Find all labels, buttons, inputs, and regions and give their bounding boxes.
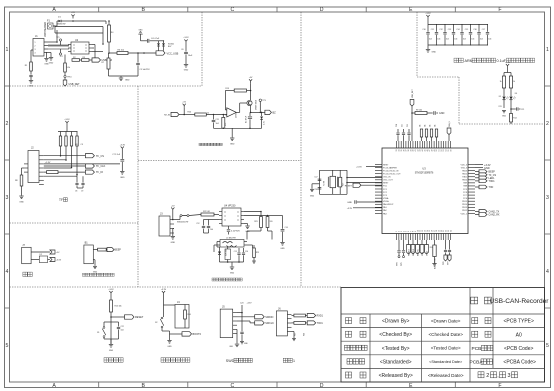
svg-text:104: 104: [446, 39, 449, 41]
net label GND right of MCU: [475, 167, 483, 169]
svg-text:CAN2_RX: CAN2_RX: [489, 214, 500, 217]
ground symbol far right CAN: [280, 243, 284, 246]
text caption reset circuit (Chinese): [104, 358, 123, 362]
svg-text:BEEP: BEEP: [115, 249, 122, 252]
bypass capacitor C13: [208, 220, 210, 226]
net flag amplifier output: [265, 110, 272, 114]
capacitor under R1: [30, 71, 32, 75]
svg-text:+3.3V: +3.3V: [356, 167, 362, 169]
U4 pin stubs: [219, 212, 244, 224]
svg-text:+3.3V: +3.3V: [45, 162, 51, 164]
svg-text:F: F: [498, 7, 501, 13]
test point flags below caps: [398, 253, 400, 256]
connector J3 external CAN: [159, 216, 170, 236]
net flag TF_CLK: [85, 164, 94, 168]
resistor R22: [201, 213, 214, 216]
svg-text:4: 4: [6, 269, 9, 275]
ground symbol TF detect: [21, 186, 23, 196]
MCU top pin stubs: [397, 141, 451, 148]
svg-text:VSS_3: VSS_3: [461, 167, 468, 169]
TF pullup bus wire: [66, 125, 68, 132]
net flag VCC_USB: [156, 51, 165, 55]
load capacitor C17 on left branch: [318, 179, 322, 180]
electrolytic capacitor E1: [148, 39, 149, 43]
CAN termination resistor R24: [244, 215, 268, 217]
wire top rail to right column: [73, 20, 106, 22]
test point TP1 on D-: [59, 39, 61, 41]
LED resistor R11: [503, 73, 505, 77]
svg-text:R13: R13: [499, 106, 502, 108]
svg-text:RESET: RESET: [135, 316, 144, 319]
svg-text:F: F: [498, 383, 501, 389]
svg-text:USB-CAN-Recorder: USB-CAN-Recorder: [490, 298, 550, 305]
svg-text:R21: R21: [225, 123, 227, 126]
svg-text:E2 47uF: E2 47uF: [246, 115, 248, 123]
TF pullup drop wires: [60, 146, 62, 156]
svg-text:GND: GND: [280, 248, 285, 250]
svg-text:C16: C16: [245, 251, 248, 253]
net flag CAN2_TX: [475, 210, 479, 212]
test point TP10: [64, 72, 66, 75]
pull resistor R5 1.5k: [64, 55, 66, 64]
wire middle rail: [55, 26, 103, 28]
svg-text:VDD_1: VDD_1: [461, 213, 468, 215]
svg-text:TXD1: TXD1: [489, 180, 496, 183]
net arrow +5V battery: [50, 250, 55, 254]
svg-text:2: 2: [486, 373, 489, 379]
op-amp input stubs: [225, 109, 226, 111]
svg-text:D: D: [320, 383, 324, 389]
power +3.3V cap bank: [426, 15, 429, 19]
text caption boot circuit (Chinese): [161, 358, 190, 362]
svg-text:1k: 1k: [513, 81, 515, 83]
net flag SWDIO: [255, 315, 265, 319]
bypass capacitor C32: [444, 25, 446, 32]
LED D6: [510, 88, 512, 96]
bypass capacitor C37: [487, 25, 489, 32]
dashed partition: bottom of CAN region / above bottom strip: [10, 286, 342, 288]
svg-text:D: D: [320, 7, 324, 13]
resistor R15 reset pullup: [110, 295, 112, 300]
svg-text:RXD1: RXD1: [317, 315, 324, 318]
svg-text:VSSA: VSSA: [383, 197, 389, 200]
series resistor on TF DI row: [47, 171, 58, 174]
svg-text:3: 3: [508, 373, 511, 379]
resistor R25 lower: [253, 245, 255, 248]
svg-text:Y1 8M: Y1 8M: [324, 180, 326, 186]
svg-text:D2: D2: [40, 254, 42, 256]
svg-text:C31: C31: [431, 29, 434, 31]
reset capacitor C22: [111, 321, 119, 323]
net flag TF_CS: [85, 154, 94, 158]
feedback resistor R19: [234, 89, 246, 92]
net flag TF_DI: [85, 170, 94, 174]
op-amp U5: [227, 108, 237, 117]
svg-text:TP9: TP9: [262, 100, 265, 102]
buzzer resistor R26: [98, 248, 107, 251]
svg-text:VDDA: VDDA: [383, 200, 389, 203]
TF wires to net flags: [44, 155, 86, 157]
emitter wire to output row: [250, 106, 252, 113]
ground symbol mid (shield): [46, 52, 48, 58]
title block horizontal dividers: [341, 314, 545, 368]
capacitor C15: [238, 248, 240, 252]
svg-text:TXD1: TXD1: [317, 322, 324, 325]
svg-text:SWDIO: SWDIO: [408, 249, 410, 256]
wire jumper to R22: [189, 215, 201, 216]
power +5V above transistor: [249, 79, 252, 83]
svg-text:104: 104: [463, 39, 466, 41]
svg-text:C15: C15: [234, 251, 237, 253]
LED D5: [503, 88, 505, 96]
ground symbol TF cap branch: [120, 172, 124, 175]
svg-text:+3.3V: +3.3V: [161, 289, 167, 291]
svg-text:C22: C22: [407, 124, 409, 127]
net flag CAN2_RX: [475, 214, 479, 216]
TF supply capacitor C7: [121, 151, 123, 159]
svg-text:5: 5: [546, 343, 549, 349]
dashed partition: bottom of TF-card region: [10, 222, 139, 224]
dashed partition: bottom of USB region: [10, 85, 203, 87]
ground symbol SWD connector: [236, 329, 238, 343]
serial resistor R18: [292, 322, 294, 324]
wires crystal to MCU OSC pins: [347, 177, 382, 179]
resistor cluster above MCU: [420, 129, 422, 137]
bottom rail of amplifier: [214, 127, 262, 129]
svg-text:BOOT1: BOOT1: [417, 248, 419, 256]
svg-text:GND: GND: [171, 242, 176, 244]
svg-text:A: A: [52, 383, 56, 389]
text caption external CAN interface (Chinese): [212, 278, 242, 281]
svg-text:R25: R25: [256, 252, 259, 254]
svg-text:2: 2: [546, 121, 549, 127]
buzzer B1: [84, 245, 93, 264]
svg-text:OSC_IN: OSC_IN: [383, 177, 391, 179]
diode D1 1N5819W: [59, 20, 62, 23]
TVS diode D4: [218, 252, 221, 255]
feedback wire from inverting input: [224, 91, 226, 110]
svg-text:120: 120: [270, 221, 273, 223]
power +3.3V above TF pullups: [65, 121, 68, 125]
svg-text:GND: GND: [502, 116, 507, 118]
ground symbol serial: [292, 331, 295, 333]
boot resistor R16: [184, 310, 187, 319]
TF card connector J2: [28, 151, 39, 183]
TF connector left pin stubs: [24, 164, 28, 172]
dashed partition: left edge of MCU region: [300, 12, 302, 287]
svg-text:SI2301: SI2301: [168, 44, 174, 46]
svg-text:104: 104: [437, 39, 440, 41]
svg-text:SWCLK: SWCLK: [413, 248, 415, 256]
svg-text:D6: D6: [515, 93, 517, 95]
ESD protection IC U2: [71, 42, 89, 54]
capacitor pair below MCU left: [398, 240, 400, 250]
ground symbol power sense: [120, 76, 122, 78]
net label +3.3V right of MCU: [475, 164, 483, 166]
svg-text:2: 2: [35, 46, 36, 48]
svg-text:4: 4: [35, 53, 36, 55]
wire J3 to jumper: [174, 219, 180, 221]
svg-text:OSC_OUT: OSC_OUT: [383, 180, 393, 182]
svg-text:<PCB TYPE>: <PCB TYPE>: [503, 319, 534, 325]
dashed partition: right edge of TF-card region: [137, 86, 139, 287]
title page number: page 2 of 3 (Chinese): [478, 372, 484, 378]
load capacitor C18 on left branch: [318, 188, 322, 189]
ground symbol choke area: [220, 261, 244, 263]
svg-text:R22 0R: R22 0R: [203, 211, 210, 213]
svg-text:1: 1: [6, 47, 9, 53]
wire J1 shell to resistor R1: [31, 49, 33, 51]
svg-text:3: 3: [6, 195, 9, 201]
wire R22 to CAN IC: [214, 214, 219, 216]
ground symbol boot: [169, 334, 171, 340]
svg-text:STM32F105RBT6: STM32F105RBT6: [415, 173, 434, 175]
ground symbol crystal: [310, 189, 314, 191]
svg-text:<Released By>: <Released By>: [379, 373, 413, 379]
net flag BEEP: [105, 249, 108, 251]
text caption serial port 1 (Chinese mixed): [283, 358, 292, 362]
svg-text:104: 104: [429, 39, 432, 41]
svg-text:GND: GND: [347, 202, 352, 204]
MCU top pin numbers: [396, 150, 452, 152]
title row label (Chinese) Released: [346, 372, 352, 378]
svg-text:C35: C35: [465, 29, 468, 31]
wire U2 top pins to loop: [92, 51, 103, 53]
svg-text:TF_CS: TF_CS: [96, 155, 104, 158]
series diode D2 battery: [39, 256, 47, 263]
power +5V symbol: [71, 15, 74, 19]
svg-text:+3.3V: +3.3V: [505, 62, 511, 64]
crystal Y1: [330, 176, 336, 187]
power +3.3V at TF cap branch: [121, 147, 124, 151]
svg-text:R15 10k: R15 10k: [115, 306, 122, 308]
svg-text:E: E: [409, 383, 413, 389]
svg-text:GND: GND: [167, 346, 172, 348]
wire diode to VCC: [62, 20, 74, 22]
bypass capacitor C33: [453, 25, 455, 32]
net flag group below MCU: [408, 240, 410, 245]
svg-text:<Tested By>: <Tested By>: [382, 346, 410, 352]
wire resistors row: [80, 59, 82, 61]
svg-text:C30: C30: [422, 29, 425, 31]
ground symbol LED left: [503, 100, 505, 108]
ground symbol right branch: [184, 65, 188, 68]
svg-text:TP1: TP1: [56, 37, 59, 39]
svg-text:1.5k: 1.5k: [67, 67, 71, 69]
svg-text:GND: GND: [432, 52, 437, 54]
svg-text:NRST: NRST: [383, 164, 389, 166]
svg-text:10k: 10k: [420, 124, 422, 127]
ground symbol SWD cap: [240, 342, 244, 344]
svg-text:GND: GND: [29, 86, 34, 88]
svg-text:S1: S1: [97, 332, 99, 334]
svg-text:PC14-OSC32_IN: PC14-OSC32_IN: [383, 170, 399, 172]
svg-text:R14: R14: [513, 118, 516, 120]
svg-text:C34: C34: [456, 29, 459, 31]
capacitor C19 above MCU: [427, 112, 433, 114]
pull-down resistor R21: [222, 117, 225, 128]
svg-text:R16: R16: [188, 314, 191, 316]
svg-text:C12: C12: [196, 223, 199, 225]
crystal circuit rails: [320, 169, 348, 171]
svg-text:C6: C6: [181, 49, 183, 51]
title col4 label: version (Chinese): [472, 331, 478, 337]
LED bus split: [507, 68, 509, 73]
svg-text:TF_CLK: TF_CLK: [96, 165, 106, 168]
bypass capacitor C36: [478, 25, 480, 32]
svg-text:LM358: LM358: [236, 112, 238, 118]
ground symbol amplifier: [231, 128, 233, 137]
wire gnd branch down: [140, 34, 142, 41]
svg-text:A: A: [52, 7, 56, 13]
text caption buzzer interface (Chinese): [83, 273, 115, 276]
svg-text:R9 10k: R9 10k: [416, 110, 422, 112]
test point TP9: [259, 99, 261, 101]
serial connector J6: [276, 311, 287, 336]
svg-text:10k: 10k: [425, 124, 427, 127]
pull-down resistor R7: [108, 53, 110, 58]
USB connector pin stubs: [44, 42, 48, 53]
note text: one 0.1uF cap near each ARM pin (Chinese mixed): [454, 58, 463, 62]
reset switch S1: [104, 321, 111, 323]
svg-text:GND: GND: [230, 144, 235, 146]
wire second rail: [53, 25, 55, 27]
capacitor C11 at node: [213, 115, 215, 120]
svg-text:PCB: PCB: [472, 346, 482, 352]
svg-text:104: 104: [121, 329, 124, 331]
svg-text:RESET: RESET: [345, 185, 353, 187]
dashed partition: left edge of capacitor-bank region upper: [416, 12, 418, 77]
resistor R1 below connector: [30, 62, 33, 71]
CAN termination resistor R23: [244, 211, 261, 213]
svg-text:4: 4: [546, 269, 549, 275]
svg-text:S2: S2: [155, 322, 157, 324]
svg-text:GND: GND: [484, 167, 490, 170]
wire op-amp output to Q2 base: [236, 111, 239, 113]
U2 pin stubs: [68, 45, 92, 52]
net flag BOOT0: [182, 332, 192, 336]
transistor Q2: [247, 100, 252, 105]
svg-text:<Checked By>: <Checked By>: [379, 332, 412, 338]
svg-text:<PCBA Code>: <PCBA Code>: [503, 359, 536, 365]
ground symbol buzzer: [93, 266, 97, 268]
svg-text:1: 1: [35, 42, 36, 44]
buzzer wire to resistor: [93, 249, 97, 251]
svg-text:<PCB Code>: <PCB Code>: [504, 346, 534, 352]
cap bank top bus: [427, 19, 429, 25]
svg-text:+3.3V: +3.3V: [347, 208, 353, 210]
cap bank bottom bus: [428, 44, 488, 46]
svg-text:JTDI: JTDI: [422, 251, 424, 256]
svg-text:PC13-TAMPER: PC13-TAMPER: [383, 166, 397, 169]
J3 pin stubs: [170, 220, 174, 234]
microcontroller U3 body: [382, 148, 468, 234]
wires choke sides: [246, 231, 248, 240]
svg-text:+3.3V: +3.3V: [120, 145, 126, 147]
net arrow +3.6V battery: [50, 258, 55, 262]
svg-text:+3.3V: +3.3V: [247, 303, 253, 305]
SWD capacitor C23: [241, 313, 243, 332]
protection diode D8: [163, 40, 164, 41]
svg-text:24: 24: [450, 230, 452, 232]
svg-text:C7 2.2uF: C7 2.2uF: [112, 154, 121, 156]
power +5V at CAN connector: [171, 208, 174, 212]
bypass capacitor C12: [203, 220, 205, 226]
svg-text:USB HEADER: USB HEADER: [44, 22, 47, 37]
wire boot vcc: [163, 295, 165, 305]
title row label (Chinese) Standarded: [347, 359, 365, 364]
capacitor C16: [243, 248, 245, 252]
svg-text:1: 1: [293, 359, 295, 363]
buzzer lower wire: [93, 259, 95, 261]
svg-text:<Drawn By>: <Drawn By>: [382, 319, 410, 325]
svg-text:C14: C14: [285, 227, 288, 229]
TF detect resistor R8: [22, 167, 25, 169]
transient suppressor U6: [225, 249, 231, 260]
svg-text:C5 1uF/25V: C5 1uF/25V: [140, 69, 151, 71]
svg-text:104: 104: [216, 123, 219, 125]
ground symbol at jumper branch: [172, 229, 174, 237]
battery connector J7: [22, 247, 31, 263]
wire boot to flag: [161, 328, 163, 331]
MCU right pin labels: [461, 164, 468, 215]
svg-text:GND: GND: [125, 80, 130, 82]
title text: name label: [471, 297, 478, 304]
resistor R14 lower: [510, 109, 512, 114]
solder jumper SJ1: [180, 215, 182, 217]
protection diode D7: [158, 41, 160, 43]
title col4 label: model (Chinese): [472, 318, 478, 324]
wires SWD to flags: [237, 316, 255, 318]
svg-text:BZ: BZ: [273, 112, 277, 115]
text caption driver output (Chinese): [199, 143, 222, 146]
svg-text:GND: GND: [120, 177, 125, 179]
power +3.3V symbol right branch: [184, 40, 187, 44]
net flag SWCLK: [255, 321, 265, 325]
svg-text:C9: C9: [81, 191, 83, 193]
ground stub of crystal block: [312, 183, 320, 185]
TF pullup resistor RP3: [71, 132, 73, 137]
svg-text:GND: GND: [49, 63, 54, 65]
power +3.3V boot block: [162, 291, 165, 295]
svg-text:GND: GND: [310, 196, 315, 198]
svg-text:BOOT0 10k: BOOT0 10k: [434, 258, 436, 269]
MCU left pin labels: [383, 164, 401, 215]
far capacitor C14 to ground: [268, 215, 283, 217]
svg-text:L1 B82789: L1 B82789: [226, 238, 237, 240]
svg-text:RX_IN: RX_IN: [164, 115, 170, 117]
svg-text:104: 104: [454, 39, 457, 41]
svg-text:+3.6V: +3.6V: [56, 260, 62, 262]
svg-text:C32: C32: [439, 29, 442, 31]
flags below right caps: [444, 255, 447, 261]
svg-text:R18: R18: [304, 333, 306, 336]
svg-text:MMBT3904: MMBT3904: [256, 100, 258, 110]
serial resistor R17: [292, 315, 294, 317]
bypass capacitor C35: [470, 25, 472, 32]
svg-text:C21: C21: [521, 109, 524, 111]
series resistor R2: [72, 59, 80, 62]
svg-text:0.1uF/50V: 0.1uF/50V: [231, 231, 240, 233]
svg-text:NRST: NRST: [383, 183, 389, 185]
capacitor C6 right branch: [185, 44, 187, 52]
svg-text:2: 2: [6, 121, 9, 127]
power +3.3V LED block: [506, 64, 509, 68]
svg-text:GND: GND: [230, 272, 235, 274]
svg-text:C17: C17: [314, 177, 317, 179]
wire fuse to diode: [53, 25, 57, 27]
TF connector right pin stubs: [39, 156, 44, 185]
